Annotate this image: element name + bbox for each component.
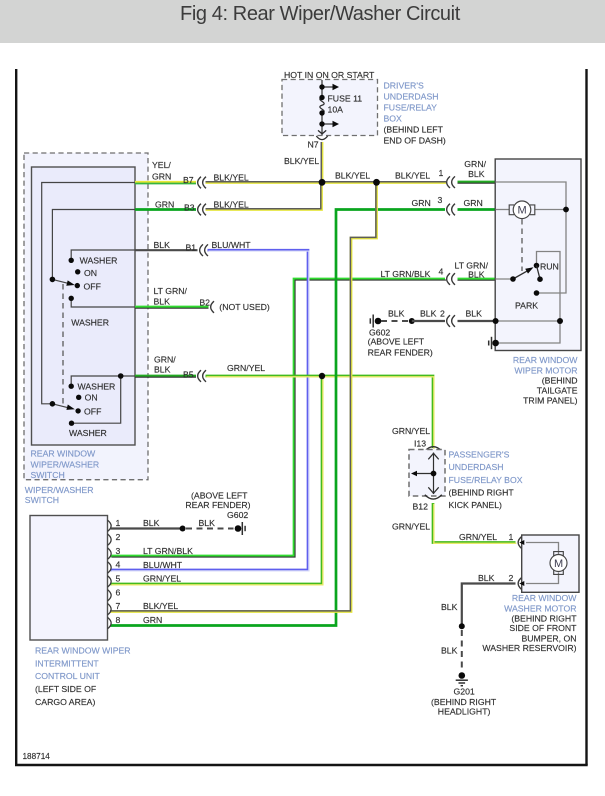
connector B2: [211, 301, 214, 313]
svg-text:2: 2: [509, 573, 514, 583]
svg-text:BOX: BOX: [384, 114, 403, 124]
wire BLK/YEL from fuse N7: [320, 142, 324, 181]
svg-text:BLK: BLK: [199, 518, 216, 528]
svg-text:GRN/YEL: GRN/YEL: [143, 574, 181, 584]
svg-text:PASSENGER'S: PASSENGER'S: [449, 449, 510, 459]
svg-text:GRN/: GRN/: [464, 159, 486, 169]
svg-text:B3: B3: [184, 203, 195, 213]
wire BLK control pin1: [111, 527, 183, 529]
svg-text:BLK/YEL: BLK/YEL: [143, 601, 178, 611]
wire B2 contact path: [71, 298, 135, 307]
svg-text:BLK: BLK: [466, 308, 483, 318]
mechanical link dashed: [62, 284, 64, 406]
svg-text:WASHER RESERVOIR): WASHER RESERVOIR): [482, 643, 576, 653]
connector 4 wiper motor: [447, 273, 455, 285]
svg-text:REAR FENDER): REAR FENDER): [368, 347, 433, 357]
rear window washer motor box: [478, 535, 579, 653]
svg-text:TAILGATE: TAILGATE: [537, 386, 578, 396]
wire motor to node: [535, 209, 567, 211]
svg-text:(BEHIND RIGHT: (BEHIND RIGHT: [431, 697, 497, 707]
wire LT GRN/BLK pin4 stub: [458, 279, 496, 280]
svg-text:(BEHIND LEFT: (BEHIND LEFT: [384, 125, 444, 135]
svg-text:(BEHIND: (BEHIND: [542, 375, 578, 385]
svg-text:BLK: BLK: [388, 308, 405, 318]
wire GRN/YEL B5 to I13: [206, 376, 434, 449]
node bus/N7 junction: [319, 179, 326, 186]
connector B5: [198, 370, 206, 382]
svg-text:UNDERDASH: UNDERDASH: [449, 462, 504, 472]
svg-text:LT GRN/BLK: LT GRN/BLK: [381, 269, 431, 279]
svg-text:(BEHIND RIGHT: (BEHIND RIGHT: [511, 614, 577, 624]
internal ground: [492, 340, 499, 347]
wire BLU/WHT B1 to control pin4: [111, 250, 309, 571]
connector B12: [425, 495, 442, 499]
svg-text:REAR WINDOW: REAR WINDOW: [31, 448, 96, 458]
wire B3 BLK/YEL riser to bus: [206, 184, 322, 210]
connector B7: [198, 177, 206, 189]
svg-text:PARK: PARK: [515, 301, 538, 311]
svg-text:7: 7: [116, 601, 121, 611]
fuse F11 internal lead: [322, 80, 333, 135]
pivot: [510, 276, 516, 282]
wire BLK dashed to G602: [186, 528, 234, 530]
ground G201: [431, 672, 497, 717]
svg-text:B1: B1: [186, 243, 197, 253]
svg-text:G201: G201: [454, 686, 475, 696]
svg-text:M: M: [554, 558, 563, 570]
svg-text:188714: 188714: [23, 752, 51, 761]
svg-text:SWITCH: SWITCH: [25, 495, 59, 505]
wire run contact loop: [496, 252, 560, 344]
svg-text:BLU/WHT: BLU/WHT: [143, 560, 183, 570]
wire BLK/YEL bus to control pin7: [110, 182, 377, 612]
contact washer2 S2: [69, 421, 74, 426]
ground G602 (wiper motor side): [368, 308, 496, 357]
svg-text:OFF: OFF: [84, 406, 101, 416]
wire pin1 internal: [496, 182, 567, 210]
wire pin2 internal: [496, 320, 560, 322]
node bus/pin7 junction: [373, 179, 380, 186]
svg-text:WIPER/WASHER: WIPER/WASHER: [25, 485, 94, 495]
svg-text:GRN: GRN: [143, 615, 162, 625]
wire GRN/YEL B12 to washer motor: [433, 503, 516, 543]
svg-text:UNDERDASH: UNDERDASH: [384, 92, 439, 102]
svg-text:GRN/YEL: GRN/YEL: [459, 532, 497, 542]
wire BLK dashed: [461, 630, 463, 671]
svg-text:WASHER: WASHER: [80, 255, 118, 265]
svg-text:INTERMITTENT: INTERMITTENT: [35, 658, 99, 668]
node motor junction: [563, 207, 569, 213]
wire B5 GRN/BLK: [135, 376, 196, 377]
svg-text:(BEHIND RIGHT: (BEHIND RIGHT: [449, 487, 515, 497]
wire B3 GRN: [135, 208, 196, 211]
svg-text:LT GRN/: LT GRN/: [154, 286, 188, 296]
svg-text:1: 1: [116, 518, 121, 528]
svg-text:HEADLIGHT): HEADLIGHT): [438, 707, 491, 717]
svg-text:WASHER MOTOR: WASHER MOTOR: [504, 604, 576, 614]
ground G602 (control unit side): [185, 491, 250, 535]
wire B2 LT GRN/BLK (not used): [135, 307, 209, 308]
rear window wiper intermittent control unit: [30, 516, 193, 708]
node pin2/run: [557, 318, 563, 324]
mechanical link dashed: [521, 219, 523, 271]
wire BLK pin path: [71, 250, 135, 260]
svg-text:BLK: BLK: [468, 169, 485, 179]
svg-text:BLK: BLK: [441, 602, 458, 612]
svg-text:WIPER MOTOR: WIPER MOTOR: [514, 366, 577, 376]
fuse 11 10A element: [320, 98, 324, 114]
pivot S2: [50, 401, 56, 407]
svg-text:BLK: BLK: [154, 364, 171, 374]
motor M2: [550, 555, 567, 572]
wire GRN control pin8 to connector 3: [111, 210, 446, 626]
svg-text:TRIM PANEL): TRIM PANEL): [523, 396, 577, 406]
svg-text:GRN/YEL: GRN/YEL: [392, 521, 430, 531]
switch lever run/park: [513, 271, 528, 279]
svg-text:LT GRN/BLK: LT GRN/BLK: [143, 546, 193, 556]
svg-text:DRIVER'S: DRIVER'S: [384, 81, 424, 91]
wire GRN/BLK motor pin 1: [458, 182, 496, 183]
svg-text:3: 3: [116, 546, 121, 556]
svg-text:WASHER: WASHER: [78, 382, 116, 392]
contact PARK: [534, 290, 540, 296]
switch S1 lever: [52, 279, 68, 283]
wire GRN motor pin 3 stub: [458, 208, 496, 211]
svg-text:(NOT USED): (NOT USED): [219, 302, 270, 312]
svg-text:6: 6: [116, 588, 121, 598]
connector 3 wiper motor: [447, 204, 455, 216]
internal arrows: [417, 453, 439, 495]
connector B3: [198, 204, 206, 216]
svg-text:REAR FENDER): REAR FENDER): [185, 500, 250, 510]
svg-text:GRN/: GRN/: [154, 355, 176, 365]
svg-text:GRN: GRN: [412, 198, 431, 208]
svg-text:N7: N7: [308, 140, 319, 150]
svg-text:BLK/YEL: BLK/YEL: [214, 172, 249, 182]
wire B7 YEL/GRN: [135, 182, 196, 183]
wire park contact: [539, 210, 566, 294]
svg-text:BLK: BLK: [420, 308, 437, 318]
wire BLK dashed to G602: [381, 320, 408, 322]
svg-text:4: 4: [439, 267, 444, 277]
svg-text:GRN: GRN: [152, 172, 171, 182]
svg-text:BLK: BLK: [441, 646, 458, 656]
svg-text:BUMPER, ON: BUMPER, ON: [521, 633, 576, 643]
svg-text:BLK: BLK: [154, 240, 171, 250]
node: [459, 623, 465, 629]
svg-text:GRN/YEL: GRN/YEL: [227, 363, 265, 373]
wire LT GRN/BLK control pin3 to connector 4: [111, 279, 447, 557]
svg-text:CONTROL UNIT: CONTROL UNIT: [35, 671, 101, 681]
rear window wiper motor box: [489, 159, 581, 406]
svg-text:4: 4: [116, 560, 121, 570]
connector N7: [316, 136, 327, 140]
wire pin3 internal to motor: [496, 209, 510, 211]
motor M1: [513, 201, 531, 219]
wiper/washer switch outer dashed box: [24, 153, 148, 480]
switch S2 lever: [52, 404, 68, 408]
svg-text:SIDE OF FRONT: SIDE OF FRONT: [509, 623, 577, 633]
junction B5 exit: [118, 373, 124, 379]
down chevron arrow: [318, 130, 326, 134]
svg-text:BLK/YEL: BLK/YEL: [284, 156, 319, 166]
connector 1 wiper motor: [447, 176, 455, 188]
contact on S2: [76, 395, 81, 400]
svg-text:GRN: GRN: [464, 198, 483, 208]
pivot S1: [50, 277, 56, 283]
svg-text:GRN: GRN: [155, 200, 174, 210]
svg-text:G602: G602: [227, 510, 248, 520]
svg-text:M: M: [518, 205, 527, 217]
svg-text:10A: 10A: [328, 105, 344, 115]
svg-text:2: 2: [116, 532, 121, 542]
wire YEL/GRN pin path: [42, 183, 135, 404]
arrowhead S1: [66, 280, 75, 285]
connector 2 wiper motor: [447, 315, 455, 327]
svg-text:ON: ON: [85, 393, 98, 403]
svg-text:(LEFT SIDE OF: (LEFT SIDE OF: [35, 684, 96, 694]
svg-text:OFF: OFF: [84, 282, 101, 292]
svg-text:BLK/YEL: BLK/YEL: [395, 171, 430, 181]
svg-text:BLK: BLK: [478, 573, 495, 583]
connector B1: [200, 244, 208, 256]
blade tip from RUN: [537, 266, 541, 280]
svg-text:KICK PANEL): KICK PANEL): [449, 500, 503, 510]
svg-text:WIPER/WASHER: WIPER/WASHER: [31, 460, 100, 470]
node GRN-YEL junction: [319, 373, 325, 379]
rear window wiper/washer switch inner box: [32, 167, 136, 445]
contact RUN: [534, 263, 540, 269]
svg-text:WASHER: WASHER: [71, 317, 109, 327]
contact on S1: [75, 269, 80, 274]
svg-text:BLK: BLK: [154, 296, 171, 306]
svg-text:(ABOVE LEFT: (ABOVE LEFT: [368, 337, 425, 347]
wire GRN/YEL junction riser to control pin5: [111, 376, 323, 585]
svg-text:WASHER: WASHER: [69, 428, 107, 438]
svg-text:BLK/YEL: BLK/YEL: [335, 171, 370, 181]
wire BLK/YEL bus: [206, 180, 447, 183]
wire BLK into motor: [458, 320, 496, 322]
wire B1 BLK: [135, 249, 198, 251]
svg-text:REAR WINDOW: REAR WINDOW: [513, 355, 578, 365]
svg-text:GRN/YEL: GRN/YEL: [392, 426, 430, 436]
svg-text:CARGO AREA): CARGO AREA): [35, 697, 95, 707]
passenger's underdash fuse/relay box: [392, 426, 523, 531]
node pin2 edge: [493, 318, 499, 324]
svg-text:RUN: RUN: [540, 261, 559, 271]
svg-text:REAR WINDOW: REAR WINDOW: [512, 593, 577, 603]
svg-text:B7: B7: [183, 175, 194, 185]
svg-text:FUSE/RELAY BOX: FUSE/RELAY BOX: [449, 475, 523, 485]
svg-text:BLU/WHT: BLU/WHT: [212, 240, 252, 250]
svg-text:1: 1: [509, 532, 514, 542]
svg-text:BLK/YEL: BLK/YEL: [214, 199, 249, 209]
arrowhead S2: [66, 405, 74, 410]
wire BLK to connector 2: [412, 320, 445, 322]
svg-text:I13: I13: [414, 439, 426, 449]
svg-text:B12: B12: [413, 501, 429, 511]
connector pin 1: [518, 537, 521, 549]
svg-text:YEL/: YEL/: [152, 160, 171, 170]
contact off S2: [75, 408, 80, 413]
contact washer S1: [69, 258, 74, 263]
svg-text:B5: B5: [183, 369, 194, 379]
svg-text:FUSE/RELAY: FUSE/RELAY: [384, 103, 438, 113]
wire GRN pin path: [52, 210, 135, 280]
contact off S1: [75, 283, 80, 288]
connector I13: [425, 447, 442, 451]
svg-text:FUSE 11: FUSE 11: [328, 94, 363, 104]
node: [180, 526, 186, 532]
pin connectors 1-8: [108, 520, 112, 629]
contact washer2 S1: [69, 296, 74, 301]
svg-text:ON: ON: [84, 268, 97, 278]
title bar: [0, 0, 605, 43]
svg-text:5: 5: [116, 574, 121, 584]
svg-text:2: 2: [440, 308, 445, 318]
svg-text:SWITCH: SWITCH: [31, 470, 65, 480]
svg-text:HOT IN ON OR START: HOT IN ON OR START: [284, 70, 375, 80]
svg-text:BLK: BLK: [143, 518, 160, 528]
contact washer S2: [69, 384, 74, 389]
svg-text:END OF DASH): END OF DASH): [384, 136, 446, 146]
wire BLK washer motor to G201: [462, 584, 516, 627]
connector pin 2: [518, 578, 521, 590]
svg-text:1: 1: [439, 168, 444, 178]
svg-text:3: 3: [438, 195, 443, 205]
svg-text:B2: B2: [199, 298, 210, 308]
node: [409, 318, 415, 324]
svg-text:REAR WINDOW WIPER: REAR WINDOW WIPER: [35, 645, 131, 655]
wire pin4 internal: [496, 278, 514, 280]
wire B5 contact paths: [71, 376, 135, 386]
svg-text:8: 8: [116, 615, 121, 625]
driver's underdash fuse/relay box: [282, 70, 446, 150]
svg-text:BLK: BLK: [468, 269, 485, 279]
